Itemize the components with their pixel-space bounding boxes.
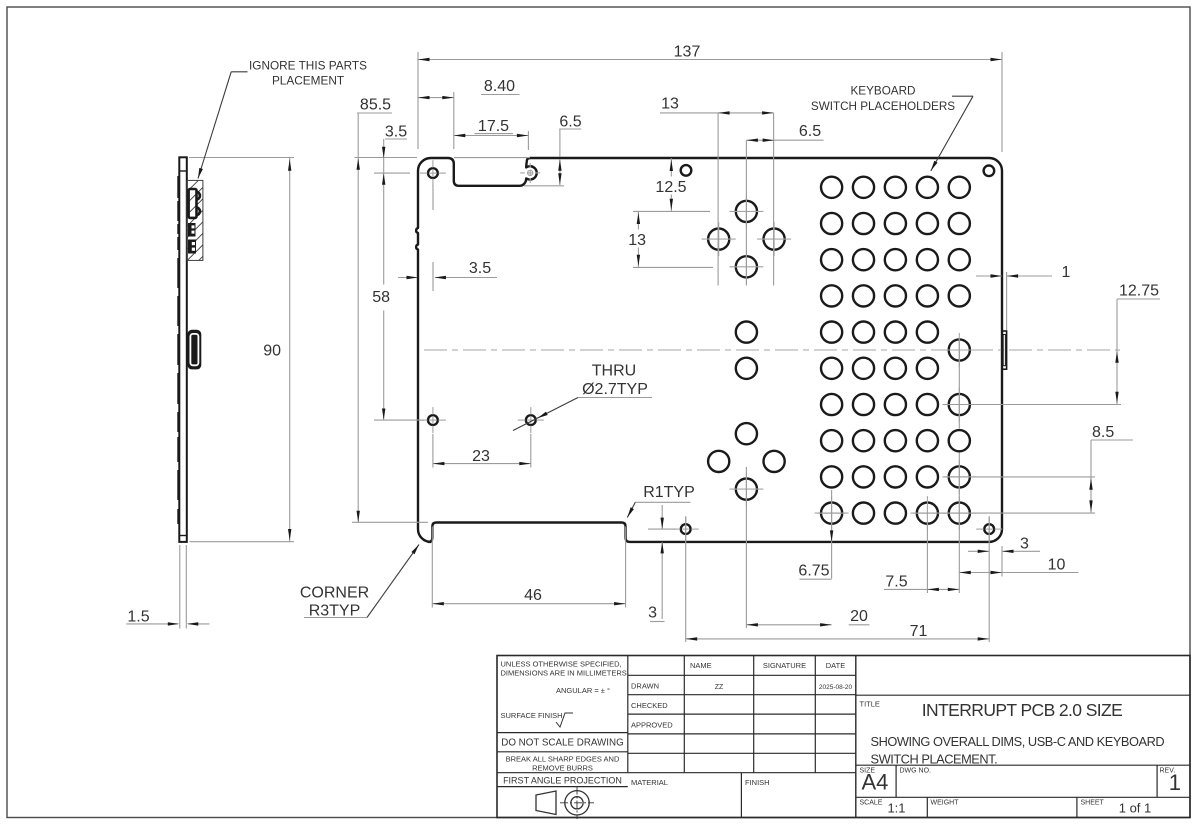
keyboard switch hole col4 row3	[917, 249, 938, 270]
keyboard switch hole col1 row2	[821, 213, 842, 234]
keyboard switch hole col1 row5	[821, 322, 842, 343]
keyboard switch hole col4 row9	[917, 466, 938, 487]
bottom cross pattern - left circle	[708, 451, 729, 472]
svg-text:23: 23	[472, 448, 490, 465]
dim 1.5 side view thickness	[179, 545, 181, 629]
svg-text:DIMENSIONS ARE IN MILLIMETERS: DIMENSIONS ARE IN MILLIMETERS	[501, 669, 627, 678]
lone circle row6	[736, 358, 757, 379]
keyboard switch hole col4 row5	[917, 322, 938, 343]
svg-text:SHOWING OVERALL DIMS, USB-C AN: SHOWING OVERALL DIMS, USB-C AND KEYBOARD	[871, 734, 1165, 749]
svg-text:INTERRUPT PCB 2.0 SIZE: INTERRUPT PCB 2.0 SIZE	[922, 700, 1122, 720]
svg-text:DATE: DATE	[826, 661, 845, 670]
svg-text:1: 1	[1062, 264, 1071, 281]
keyboard switch hole col5 row4	[949, 285, 970, 306]
svg-text:CORNER: CORNER	[300, 585, 369, 602]
svg-text:WEIGHT: WEIGHT	[931, 800, 960, 807]
keyboard switch hole col1 row6	[821, 358, 842, 379]
svg-text:SHEET: SHEET	[1081, 800, 1105, 807]
tooling hole top-right	[984, 166, 995, 177]
tooling hole near 12.5 dim	[681, 165, 692, 176]
svg-text:1: 1	[1169, 770, 1181, 795]
svg-text:SWITCH PLACEMENT.: SWITCH PLACEMENT.	[871, 752, 998, 767]
dim 3.5 horizontal (hole to left edge)	[432, 185, 434, 210]
keyboard switch hole col2 row7	[853, 394, 874, 415]
keyboard switch hole col1 row3	[821, 249, 842, 270]
dim 6.75	[831, 490, 833, 579]
svg-text:FINISH: FINISH	[745, 778, 770, 787]
svg-text:IGNORE THIS PARTS: IGNORE THIS PARTS	[249, 59, 367, 73]
dim 23	[432, 434, 434, 468]
small component 2 in hatch zone	[188, 240, 196, 254]
keyboard switch hole col4 row6	[917, 358, 938, 379]
keyboard switch hole col1 row4	[821, 285, 842, 306]
svg-text:BREAK ALL SHARP EDGES AND: BREAK ALL SHARP EDGES AND	[506, 755, 620, 764]
keyboard switch hole crosshair col5 row9	[949, 466, 970, 487]
svg-text:3.5: 3.5	[469, 260, 491, 277]
mounting hole H3 THRU	[526, 415, 536, 425]
svg-text:6.5: 6.5	[799, 123, 821, 140]
dim 71	[685, 517, 687, 642]
dim 8.40	[453, 92, 455, 149]
svg-text:8.5: 8.5	[1092, 424, 1114, 441]
keyboard switch hole col1 row7	[821, 394, 842, 415]
svg-text:3: 3	[1020, 536, 1029, 553]
svg-text:20: 20	[850, 608, 868, 625]
dim 46 bottom notch	[431, 527, 433, 608]
keyboard switch hole col3 row10	[885, 502, 906, 523]
first angle projection symbol	[536, 791, 556, 815]
keyboard switch hole col2 row3	[853, 249, 874, 270]
svg-text:KEYBOARD: KEYBOARD	[851, 85, 916, 98]
svg-text:SURFACE FINISH: SURFACE FINISH	[501, 711, 563, 720]
mounting hole H2 left	[428, 415, 438, 425]
keyboard switch hole col4 row4	[917, 285, 938, 306]
top cross pattern - top circle	[736, 201, 757, 222]
keyboard switch hole crosshair col5 row7	[949, 394, 970, 415]
svg-text:58: 58	[372, 289, 390, 306]
svg-text:CHECKED: CHECKED	[631, 701, 668, 710]
svg-text:SCALE: SCALE	[860, 800, 883, 807]
dim 13 horizontal top pattern	[660, 112, 774, 114]
keyboard switch hole col2 row10	[853, 502, 874, 523]
svg-text:85.5: 85.5	[360, 97, 391, 114]
keyboard switch hole col5 row3	[949, 249, 970, 270]
svg-text:7.5: 7.5	[885, 574, 907, 591]
svg-text:90: 90	[263, 343, 281, 360]
keyboard switch hole col3 row4	[885, 285, 906, 306]
keyboard switch hole col1 row9	[821, 466, 842, 487]
dim 3 hole to bottom edge	[661, 505, 663, 529]
dim 1 usb tab	[976, 275, 1002, 277]
keyboard switch hole col3 row5	[885, 322, 906, 343]
keyboard switch hole col2 row2	[853, 213, 874, 234]
dim 6.5 top pattern	[746, 139, 823, 141]
svg-text:ZZ: ZZ	[715, 684, 724, 691]
svg-text:71: 71	[910, 623, 928, 640]
keyboard switch hole crosshair col4 row10	[917, 502, 938, 523]
keyboard switch hole col3 row1	[885, 177, 906, 198]
extension lines top edge level	[189, 157, 294, 159]
keyboard switch hole col4 row1	[917, 177, 938, 198]
horizontal center line (dash-dot)	[424, 349, 1120, 351]
svg-text:3.5: 3.5	[385, 124, 407, 141]
dim 12.5	[670, 158, 672, 176]
dim 20	[745, 467, 747, 628]
keyboard switch hole col2 row4	[853, 285, 874, 306]
svg-text:17.5: 17.5	[478, 118, 509, 135]
svg-text:FIRST ANGLE PROJECTION: FIRST ANGLE PROJECTION	[503, 775, 622, 785]
keyboard switch hole crosshair col5 row10	[949, 502, 970, 523]
svg-text:A4: A4	[862, 770, 889, 795]
dim 10	[959, 572, 1078, 574]
svg-text:UNLESS OTHERWISE SPECIFIED,: UNLESS OTHERWISE SPECIFIED,	[501, 660, 622, 669]
bottom cross pattern - bottom circle	[736, 479, 757, 500]
col4/col5 extension lines down	[926, 525, 928, 593]
svg-text:2025-08-20: 2025-08-20	[819, 684, 853, 691]
svg-text:MATERIAL: MATERIAL	[631, 778, 668, 787]
keyboard switch hole col2 row8	[853, 430, 874, 451]
svg-text:6.5: 6.5	[559, 114, 581, 131]
dim 85.5	[357, 112, 392, 114]
side view USB-C connector	[187, 330, 201, 370]
dim 13 vertical pattern	[637, 211, 639, 229]
top cross pattern - bottom circle	[736, 256, 757, 277]
side view board outline	[179, 157, 187, 542]
svg-text:13: 13	[628, 232, 646, 249]
svg-text:6.75: 6.75	[798, 562, 829, 579]
svg-text:8.40: 8.40	[484, 78, 515, 95]
mounting hole H5 bottom-right corner	[984, 524, 994, 534]
keyboard switch hole col5 row8	[949, 430, 970, 451]
top cross pattern - right circle	[764, 229, 785, 250]
keyboard switch hole col4 row7	[917, 394, 938, 415]
dim 17.5 notch width	[527, 131, 529, 150]
keyboard switch hole col3 row2	[885, 213, 906, 234]
svg-text:ANGULAR = ± °: ANGULAR = ± °	[556, 686, 610, 695]
usb connector side profile in hatch zone	[189, 189, 197, 218]
svg-text:Ø2.7TYP: Ø2.7TYP	[582, 381, 648, 398]
dim 12.75	[1117, 298, 1160, 300]
keyboard switch hole col5 row1	[949, 177, 970, 198]
title block frame	[497, 656, 1190, 818]
svg-text:46: 46	[524, 587, 542, 604]
keyboard switch hole crosshair col1 row10	[821, 502, 842, 523]
bottom cross pattern - right circle	[764, 451, 785, 472]
svg-text:13: 13	[661, 96, 679, 113]
keyboard switch hole col2 row5	[853, 322, 874, 343]
svg-text:R1TYP: R1TYP	[643, 484, 695, 501]
small component 1 in hatch zone	[188, 223, 196, 237]
keyboard switch hole col1 row1	[821, 177, 842, 198]
svg-text:REMOVE BURRS: REMOVE BURRS	[532, 763, 593, 772]
mounting hole H1 top-left	[428, 168, 438, 178]
svg-text:1 of 1: 1 of 1	[1119, 801, 1152, 816]
keyboard switch hole col3 row7	[885, 394, 906, 415]
svg-text:3: 3	[648, 605, 657, 622]
keyboard switch hole col5 row2	[949, 213, 970, 234]
keyboard switch hole crosshair col5 centerline	[949, 339, 970, 360]
PCB top-view outline	[416, 158, 1002, 542]
bottom cross pattern - top circle	[736, 423, 757, 444]
dim 8.5	[1091, 439, 1133, 441]
keyboard switch hole col3 row6	[885, 358, 906, 379]
svg-text:NAME: NAME	[690, 661, 712, 670]
svg-text:DWG NO.: DWG NO.	[900, 768, 932, 775]
dim 7.5	[884, 588, 959, 590]
mounting hole H4 bottom	[681, 524, 691, 534]
side view back components	[177, 176, 179, 198]
dim 3.5 vertical + 58	[385, 138, 407, 140]
dim 3 bottom right corner	[968, 550, 989, 552]
keyboard switch hole col3 row8	[885, 430, 906, 451]
svg-text:137: 137	[674, 44, 701, 61]
svg-text:12.75: 12.75	[1119, 283, 1159, 300]
lone circle row5	[736, 322, 757, 343]
keyboard switch hole col4 row8	[917, 430, 938, 451]
keyboard switch hole col3 row3	[885, 249, 906, 270]
dim 137 overall width	[417, 52, 419, 149]
keyboard switch hole col2 row1	[853, 177, 874, 198]
usb pilot hole in notch	[528, 170, 533, 175]
keyboard switch hole col3 row9	[885, 466, 906, 487]
svg-text:1:1: 1:1	[887, 801, 905, 816]
svg-text:DRAWN: DRAWN	[631, 682, 659, 691]
keyboard switch hole col2 row6	[853, 358, 874, 379]
svg-text:PLACEMENT: PLACEMENT	[272, 74, 344, 88]
svg-text:12.5: 12.5	[655, 179, 686, 196]
svg-text:THRU: THRU	[592, 363, 636, 380]
dim 90 side view	[190, 541, 295, 543]
svg-text:TITLE: TITLE	[860, 700, 880, 709]
svg-text:SIGNATURE: SIGNATURE	[763, 661, 806, 670]
svg-text:APPROVED: APPROVED	[631, 721, 673, 730]
ignored-parts hatched zone	[187, 180, 203, 260]
svg-text:10: 10	[1048, 557, 1066, 574]
keyboard switch hole col2 row9	[853, 466, 874, 487]
keyboard switch hole col4 row2	[917, 213, 938, 234]
svg-text:SWITCH PLACEHOLDERS: SWITCH PLACEHOLDERS	[811, 100, 955, 113]
keyboard switch hole col1 row8	[821, 430, 842, 451]
top cross pattern - left circle	[708, 229, 729, 250]
USB-C connector protrusion on right edge	[1002, 331, 1007, 369]
dim 6.5 notch depth	[559, 128, 581, 130]
svg-text:DO NOT SCALE DRAWING: DO NOT SCALE DRAWING	[501, 738, 623, 749]
svg-text:1.5: 1.5	[127, 609, 149, 626]
